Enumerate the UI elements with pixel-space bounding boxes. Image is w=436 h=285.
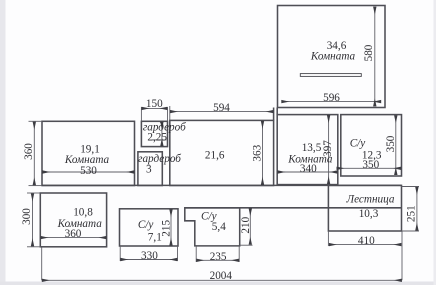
- dim 360 extension lines (room 19,1): [29, 120, 43, 122]
- dim 150 line: [142, 107, 167, 109]
- dim 360 line (room 19,1): [33, 122, 35, 185]
- dim 360 line (room 10,8): [41, 237, 106, 239]
- dim 251 line: [416, 187, 418, 230]
- svg-text:300: 300: [21, 208, 33, 225]
- svg-text:2004: 2004: [210, 270, 233, 282]
- dim 150 extension lines: [140, 107, 142, 121]
- svg-text:5,4: 5,4: [212, 221, 226, 233]
- svg-text:251: 251: [406, 205, 418, 222]
- dim 300 extension lines: [27, 192, 40, 194]
- dim 410 extension left: [327, 231, 329, 246]
- wardrobe 2,25 walls: [141, 121, 167, 146]
- svg-text:363: 363: [252, 144, 264, 161]
- dim 530 line: [43, 171, 135, 173]
- dim 215 line: [170, 210, 172, 246]
- room 13,5 walls: [277, 115, 338, 185]
- svg-text:гардероб: гардероб: [138, 153, 181, 165]
- svg-text:7,1: 7,1: [148, 231, 162, 243]
- dim 235 extension lines: [195, 246, 197, 262]
- svg-text:Комната: Комната: [287, 153, 333, 165]
- room 34,6 walls: [278, 6, 386, 108]
- staircase room walls: [328, 185, 401, 231]
- dim 340 line: [278, 171, 337, 173]
- svg-text:360: 360: [23, 143, 35, 160]
- room 19,1 walls: [42, 121, 135, 185]
- dim 251 extension lines: [402, 186, 420, 188]
- room C/y 5,4 walls (L-shape): [185, 208, 240, 246]
- dim 210 extension: [240, 244, 253, 246]
- dim 363 line: [262, 121, 264, 184]
- dim 2004 line: [42, 279, 401, 281]
- svg-text:С/у: С/у: [350, 138, 366, 150]
- svg-text:21,6: 21,6: [205, 150, 225, 162]
- dim 397 line: [328, 115, 330, 183]
- dim 330 line: [121, 259, 177, 261]
- wall between 21,6 and 13,5 upper part: [273, 108, 275, 121]
- svg-text:330: 330: [141, 250, 158, 262]
- svg-text:12,3: 12,3: [362, 149, 382, 161]
- svg-text:2,25: 2,25: [147, 131, 167, 143]
- bottom page edge shadow: [0, 282, 436, 285]
- dim 210 line: [249, 209, 251, 245]
- dim 350 vertical line (C/y 12,3): [395, 116, 397, 175]
- short line under 2,25: [152, 139, 167, 141]
- dim 350 horizontal line (C/y 12,3): [337, 167, 401, 169]
- dim 596 line: [282, 101, 381, 103]
- svg-text:530: 530: [80, 165, 97, 177]
- svg-text:150: 150: [146, 98, 163, 110]
- svg-text:235: 235: [210, 251, 227, 263]
- dim 594 line: [170, 111, 273, 113]
- svg-text:Комната: Комната: [57, 218, 103, 230]
- svg-text:580: 580: [363, 44, 375, 61]
- right page edge shadow: [434, 0, 436, 285]
- room C/y 7,1 walls: [120, 209, 179, 246]
- svg-text:10,3: 10,3: [359, 208, 379, 220]
- left page edge shadow: [0, 0, 6, 285]
- dim 300 line: [32, 194, 34, 246]
- svg-text:210: 210: [240, 216, 252, 233]
- dim 2004 extension lines: [41, 248, 43, 281]
- dim 594 extension line left: [169, 106, 171, 120]
- svg-text:594: 594: [213, 102, 230, 114]
- svg-text:350: 350: [385, 135, 397, 152]
- svg-text:410: 410: [358, 235, 375, 247]
- dim 330 extension lines: [119, 246, 121, 261]
- room 10,8 walls: [40, 193, 106, 247]
- room C/y 12,3 walls: [341, 115, 402, 176]
- wardrobe 3 walls: [138, 152, 162, 186]
- dim 410 line: [329, 244, 401, 246]
- svg-text:3: 3: [146, 164, 152, 176]
- svg-text:215: 215: [160, 220, 172, 237]
- dim 580 line: [374, 7, 376, 106]
- svg-text:Лестница: Лестница: [346, 193, 395, 205]
- bottom wall of middle row: [42, 184, 402, 186]
- svg-text:13,5: 13,5: [302, 142, 322, 154]
- svg-text:10,8: 10,8: [73, 206, 93, 218]
- svg-text:596: 596: [323, 92, 340, 104]
- svg-text:Комната: Комната: [310, 51, 356, 63]
- svg-text:Комната: Комната: [64, 154, 110, 166]
- dim 2,25 vertical line inside wardrobe: [161, 122, 163, 146]
- svg-text:С/у: С/у: [138, 219, 154, 231]
- staircase middle line / long wall: [185, 207, 402, 209]
- dim 235 line: [197, 259, 239, 261]
- room 21,6 walls: [170, 120, 274, 185]
- window sill symbol in room 34,6: [300, 74, 361, 77]
